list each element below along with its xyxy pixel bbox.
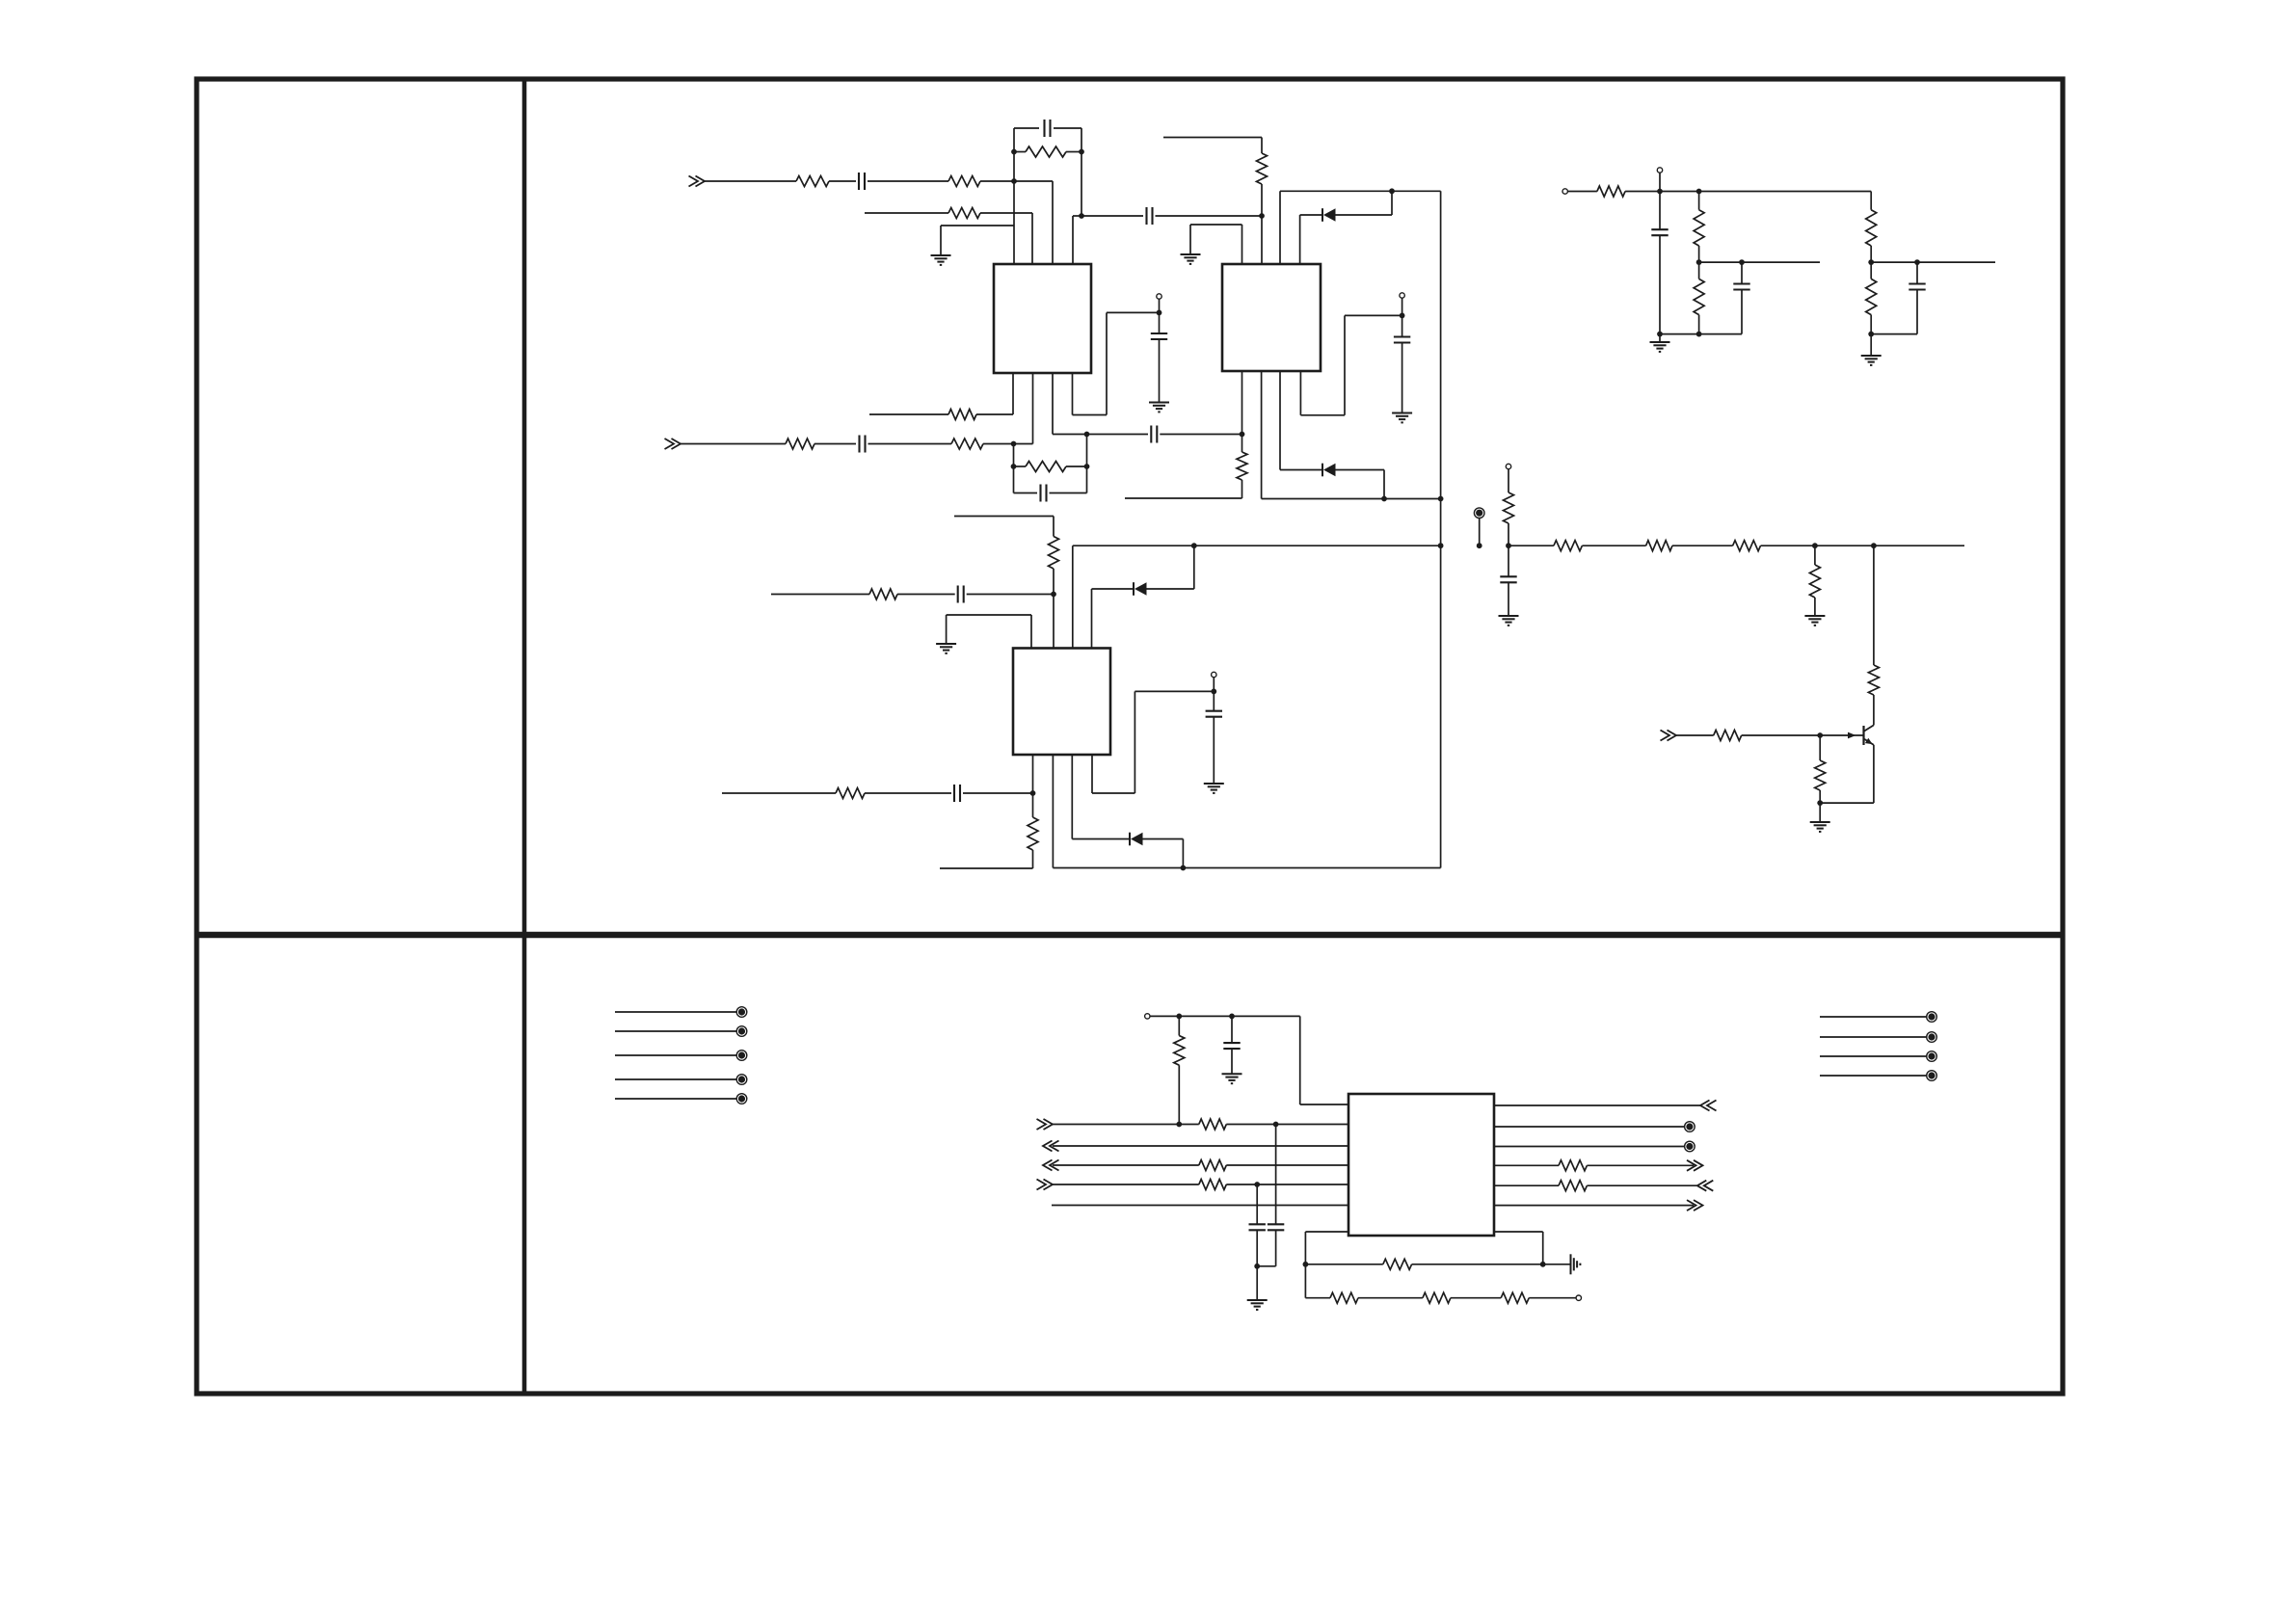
ground G8 [1804, 615, 1825, 617]
output connector chevron R5 [1697, 1181, 1707, 1191]
wire row6 b [865, 792, 951, 794]
wire R15 lead bottom [1508, 523, 1509, 545]
resistor R9 [1026, 462, 1066, 472]
wire U3 pinC2 drop [1052, 755, 1054, 868]
node B1 res [1176, 1122, 1182, 1128]
wire big loop bottom [1053, 867, 1440, 869]
terminal T1 target [1474, 508, 1484, 519]
wire U4 botright a [1494, 1231, 1543, 1233]
wire ur mid stub [1699, 261, 1820, 263]
capacitor C16 [1223, 1042, 1240, 1044]
wire ur bottom a [1660, 333, 1742, 335]
wire R26 lead bottom [1870, 246, 1872, 262]
IC U3 [1013, 649, 1110, 756]
wire y901 stub [940, 867, 1033, 869]
node y566 x1565 [1506, 543, 1511, 548]
wire U1 pinB drop [1032, 373, 1034, 444]
resistor R10 [1237, 452, 1247, 480]
input connector chevron B4 [1044, 1180, 1054, 1190]
wire left pad 3 [615, 1054, 736, 1056]
diode D1 [1322, 208, 1323, 222]
resistor R7 [786, 439, 814, 449]
wire U2 pinB2 drop [1261, 371, 1263, 499]
resistor R34 [1383, 1259, 1412, 1269]
terminal vcc5 circle [1145, 1014, 1150, 1019]
wire C7 lead bottom [1159, 339, 1161, 403]
wire U2 pin1 drop [1241, 225, 1243, 264]
wire ur right drop [1870, 192, 1872, 210]
frame horizontal panel divider [197, 932, 2063, 938]
wire row1 b [829, 180, 856, 182]
ground G13 [1247, 1299, 1268, 1301]
wire ur b [1625, 191, 1660, 193]
resistor R33 [1559, 1181, 1587, 1191]
wire U4 botleft drop [1304, 1232, 1306, 1264]
wire U2 pinB1 drop [1241, 371, 1243, 435]
wire row4 c [868, 443, 952, 445]
wire bvcc drop [1299, 1016, 1301, 1104]
wire y566 b [1508, 545, 1554, 546]
wire C16 lead bottom [1231, 1049, 1233, 1074]
wire y517 left stub [1125, 497, 1242, 499]
capacitor C14 [1733, 282, 1749, 284]
resistor R8 [951, 439, 983, 449]
node loop2 res left [1011, 464, 1017, 469]
wire row1 d [980, 180, 1014, 182]
wire y450 a [1053, 434, 1087, 436]
IC U2 [1222, 264, 1321, 371]
wire D3 left drop [1091, 589, 1093, 649]
wire row1 a [705, 180, 796, 182]
wire T1 stem [1479, 519, 1481, 546]
wire vcc2 b [1345, 314, 1402, 316]
wire row6 c [963, 792, 1033, 794]
wire C13 lead top [1659, 192, 1661, 230]
terminal R2 target [1685, 1122, 1695, 1132]
node row6 junction [1030, 790, 1036, 796]
resistor R3 [1026, 146, 1066, 157]
wire stub y535 [954, 516, 1054, 518]
wire vcc3 b [1135, 690, 1214, 692]
wire D4 lead a [1072, 838, 1130, 840]
node loop1 res right [1079, 149, 1084, 155]
wire y566 left drop [1072, 545, 1074, 648]
wire left pad 2 [615, 1030, 736, 1032]
node B1 cap [1273, 1122, 1279, 1128]
wire D3 rise [1193, 545, 1195, 589]
wire B3 b [1226, 1164, 1348, 1166]
wire C8 lead top [1402, 315, 1403, 336]
wire R25 lead bottom [1698, 315, 1700, 334]
terminal P2 circle [1576, 1295, 1581, 1300]
wire R27 lead top [1870, 262, 1872, 279]
wire R3out [1494, 1146, 1685, 1148]
wire right pad 3 [1820, 1055, 1927, 1057]
terminal TP1 circle [1506, 464, 1510, 468]
wire Q1 collector riser [1873, 545, 1875, 665]
node ur3 [1696, 259, 1702, 265]
resistor R11 [1049, 537, 1059, 570]
wire U2 pinB3 drop [1279, 371, 1281, 470]
node bvcc2 [1229, 1014, 1235, 1020]
output connector chevron B2 [1043, 1141, 1053, 1152]
wire U3 pinC1 drop [1032, 755, 1034, 793]
transistor Q1 [1862, 726, 1864, 745]
wire y450 drop [1086, 435, 1088, 467]
wire R28 lead bottom [1178, 1065, 1180, 1124]
wire R25 lead top [1698, 262, 1700, 279]
wire y224 a [1081, 215, 1143, 217]
wire C7 lead top [1159, 312, 1161, 333]
wire y566 c [1582, 545, 1645, 546]
node big loop D4 [1181, 865, 1187, 871]
terminal right pad 4 [1927, 1071, 1937, 1081]
wire vcc1 a [1073, 414, 1108, 416]
node P1 right [1540, 1262, 1546, 1267]
resistor R1 [796, 176, 829, 187]
node y224 right [1259, 213, 1265, 219]
resistor R4 [948, 208, 980, 219]
wire R24 lead top [1698, 192, 1700, 210]
resistor R28 [1174, 1036, 1185, 1066]
wire loop1 right vertical [1081, 128, 1082, 216]
wire U1 pin1 drop [1013, 181, 1015, 264]
node loop2 res right [1084, 464, 1090, 469]
resistor R12 [869, 589, 897, 599]
wire R6out [1494, 1205, 1694, 1207]
wire TP1 stem [1508, 469, 1509, 492]
wire R5 lead bottom [1261, 184, 1263, 216]
ground G3 [1149, 402, 1169, 404]
node ur5 [1696, 332, 1702, 337]
wire C18 lead top [1275, 1125, 1277, 1225]
wire bvcc b [1300, 1104, 1348, 1105]
wire C15 lead bottom [1916, 290, 1918, 334]
wire row6 stub [722, 792, 836, 794]
wire D2 lead b [1336, 469, 1385, 471]
wire base a [1676, 734, 1714, 736]
input connector chevron J1 [696, 176, 706, 187]
wire P1 gnd lead [1543, 1264, 1570, 1265]
node right vert y566 [1438, 543, 1444, 548]
node ur4 [1739, 259, 1745, 265]
node row1 junction [1011, 178, 1017, 184]
wire base c [1820, 734, 1863, 736]
wire R14 lead top [1032, 793, 1034, 817]
resistor R36 [1423, 1292, 1451, 1303]
wire R4out b [1587, 1164, 1694, 1166]
wire left pad 4 [615, 1078, 736, 1080]
resistor R31 [1199, 1180, 1227, 1190]
wire U2 pinB4 drop [1299, 371, 1301, 415]
wire loop1 left vertical [1013, 128, 1015, 181]
wire loop1 top b [1054, 127, 1081, 129]
node B4 cap [1254, 1182, 1260, 1187]
wire ur c [1660, 191, 1699, 193]
ground G7 [1499, 615, 1519, 617]
wire D1 lead b [1336, 214, 1393, 216]
wire P2 a [1305, 1297, 1330, 1299]
capacitor C3 [1145, 207, 1147, 225]
wire C16 lead top [1231, 1016, 1233, 1043]
wire right pad 2 [1820, 1036, 1927, 1038]
resistor R30 [1199, 1160, 1227, 1171]
diode D3 [1133, 582, 1135, 596]
capacitor C6 [1150, 426, 1152, 443]
output connector chevron R4 [1694, 1160, 1703, 1171]
wire R10 lead top [1241, 435, 1243, 453]
capacitor C1 [858, 173, 860, 190]
wire vcc2 rise [1344, 315, 1346, 414]
wire D3 lead a [1092, 588, 1135, 590]
node vcc3 [1211, 689, 1216, 695]
node y566 T1 [1477, 543, 1482, 548]
wire C14 lead top [1741, 262, 1743, 283]
wire D3 lead b [1147, 588, 1194, 590]
wire vcc1 rise [1106, 312, 1108, 414]
wire R19 lead top [1814, 545, 1816, 565]
node row4 junction [1011, 441, 1017, 447]
wire loop1 top a [1014, 127, 1039, 129]
diode D4 [1129, 833, 1131, 846]
wire C18 lead bottom [1275, 1230, 1277, 1266]
ground G9 [1810, 821, 1830, 823]
resistor R6 [948, 410, 976, 420]
wire P2 b [1358, 1297, 1423, 1299]
wire loop1 res lead a [1014, 151, 1026, 153]
output connector chevron R1 [1700, 1101, 1710, 1111]
wire row5 b [897, 594, 955, 596]
ground G11 [1861, 355, 1882, 357]
wire D1 lead a [1300, 214, 1322, 216]
wire R4out a [1494, 1164, 1559, 1166]
node vcc2 [1400, 313, 1405, 319]
wire row4 e [1014, 443, 1033, 445]
node bvcc1 [1176, 1014, 1182, 1020]
node ur7 [1914, 259, 1920, 265]
resistor R23 [1597, 186, 1625, 197]
node ur8 [1868, 332, 1874, 337]
capacitor C17 [1249, 1223, 1266, 1225]
wire y450 b [1087, 434, 1149, 436]
wire y517 right [1262, 498, 1441, 500]
terminal left pad 1 [736, 1007, 747, 1018]
capacitor C11 [1206, 710, 1222, 712]
wire B3 a [1053, 1164, 1199, 1166]
node ur2 [1696, 189, 1702, 195]
wire Q1 emitter drop [1873, 745, 1875, 803]
wire left pad 5 [615, 1098, 736, 1100]
resistor R20 [1868, 665, 1879, 695]
wire U1 pin3 drop [1052, 181, 1054, 264]
wire P1 a [1305, 1264, 1382, 1265]
wire gnd stub G5 [946, 615, 948, 644]
wire y566 row a [1073, 545, 1441, 546]
wire C17 lead top [1256, 1184, 1258, 1224]
wire loop2 left upper [1013, 444, 1015, 467]
wire U1 pinC drop [1052, 373, 1054, 435]
wire R19 lead bottom [1814, 598, 1816, 616]
wire bvcc a [1150, 1015, 1300, 1017]
wire R27 lead bottom [1870, 315, 1872, 334]
wire loop2 bottom b [1050, 492, 1087, 494]
node P1 left [1303, 1262, 1309, 1267]
wire B4 b [1226, 1184, 1348, 1185]
capacitor C2 [1043, 120, 1045, 137]
wire R2out [1494, 1126, 1685, 1128]
terminal right pad 1 [1927, 1012, 1937, 1023]
wire R1out [1494, 1104, 1700, 1106]
ground G1 [931, 254, 951, 256]
resistor R37 [1501, 1292, 1529, 1303]
resistor R29 [1199, 1119, 1227, 1130]
resistor R16 [1554, 541, 1583, 551]
wire vcc3 stem [1213, 678, 1215, 692]
wire R5 lead top [1261, 138, 1263, 154]
wire U2 pin3 rise [1279, 191, 1281, 264]
wire C17 lead bottom [1256, 1230, 1258, 1266]
wire loop1 res lead b [1066, 151, 1081, 153]
wire right long vertical upper [1440, 191, 1442, 498]
wire row4 b [814, 443, 856, 445]
terminal left pad 2 [736, 1026, 747, 1037]
ground G4 [1392, 412, 1412, 414]
terminal J4 circle [1562, 189, 1567, 194]
wire vcc4 stem [1659, 173, 1661, 191]
wire U3 pin2 drop [1053, 595, 1055, 649]
wire R24 lead bottom [1698, 246, 1700, 262]
wire P2 drop [1304, 1264, 1306, 1298]
wire R21 lead bottom [1819, 790, 1821, 803]
resistor R22 [1714, 731, 1742, 741]
node y450 mid [1084, 432, 1090, 438]
wire right pad 1 [1820, 1016, 1927, 1018]
wire stub y142 [1163, 137, 1262, 139]
node y566 x1944 [1871, 543, 1877, 548]
input connector chevron J3 [1668, 731, 1677, 741]
capacitor C9 [957, 586, 959, 603]
terminal vcc3 circle [1212, 672, 1216, 677]
wire C12 lead bottom [1508, 582, 1509, 616]
ground G10 [1650, 341, 1670, 343]
wire D4 drop [1182, 839, 1184, 868]
wire row1 c [868, 180, 948, 182]
wire R5out b [1587, 1184, 1696, 1186]
IC U1 [994, 264, 1091, 373]
wire vcc3 a [1092, 792, 1135, 794]
ground G2 [1181, 253, 1201, 255]
IC U4 [1348, 1094, 1494, 1236]
wire right long vertical lower [1440, 545, 1442, 867]
wire gnd stub G13 [1256, 1266, 1258, 1300]
wire C14 lead bottom [1741, 290, 1743, 334]
wire row2 stub [865, 212, 948, 214]
wire gnd stub G1 [940, 226, 942, 255]
wire row3 b [976, 413, 1013, 415]
wire U1 pin4 jog [1073, 215, 1081, 217]
wire vcc1 stem [1159, 299, 1161, 312]
ground G5 [936, 643, 956, 645]
wire ur a [1567, 191, 1597, 193]
node y566 x1883 [1812, 543, 1818, 548]
wire U4 botleft a [1305, 1231, 1348, 1233]
wire loop2 right [1086, 466, 1088, 493]
node base junction [1817, 732, 1823, 738]
wire U2 gnd horizontal [1190, 224, 1242, 226]
resistor R18 [1733, 541, 1761, 551]
wire row5 c [967, 594, 1054, 596]
wire P2 d [1529, 1297, 1576, 1299]
capacitor C10 [953, 785, 955, 802]
wire B5 [1052, 1205, 1348, 1207]
resistor R32 [1559, 1160, 1587, 1171]
wire Q1 collector lead [1873, 695, 1875, 725]
wire U3 pinC4 drop [1091, 755, 1093, 793]
wire D2 drop [1383, 470, 1385, 499]
output connector chevron B3 [1043, 1160, 1053, 1171]
node D1 top [1389, 188, 1395, 194]
wire gnd stub G10 [1659, 334, 1661, 342]
wire B1 a [1053, 1124, 1199, 1126]
terminal vcc2 circle [1400, 293, 1404, 298]
wire R5out a [1494, 1184, 1559, 1186]
wire caps join [1257, 1265, 1275, 1267]
wire row4 a [681, 443, 786, 445]
wire vcc2 a [1300, 414, 1345, 416]
wire row2 b [980, 212, 1032, 214]
resistor R19 [1809, 565, 1820, 598]
wire loop2 res lead a [1014, 466, 1027, 467]
node ur6 [1868, 259, 1874, 265]
wire top loop horizontal [1280, 190, 1441, 192]
terminal right pad 2 [1927, 1032, 1937, 1043]
node vcc1 [1157, 310, 1162, 316]
resistor R26 [1866, 210, 1877, 246]
wire base b [1742, 734, 1821, 736]
wire B2 [1053, 1145, 1348, 1147]
wire B1 b [1226, 1124, 1348, 1126]
wire loop2 left lower [1013, 466, 1015, 493]
node emitter [1817, 800, 1823, 806]
wire y224 b [1156, 215, 1263, 217]
ground G12 [1222, 1073, 1242, 1075]
wire U2 pin2 drop [1261, 216, 1263, 264]
resistor R15 [1504, 492, 1514, 523]
border frame outer [197, 79, 2063, 1394]
node ur1 [1657, 189, 1663, 195]
wire loop2 bottom a [1014, 492, 1038, 494]
wire y566 d [1672, 545, 1733, 546]
input connector chevron B1 [1044, 1119, 1054, 1130]
wire emitter horizontal [1820, 802, 1874, 804]
wire right pad 4 [1820, 1075, 1927, 1077]
input connector chevron J2 [672, 439, 681, 449]
node y450 right [1240, 432, 1245, 438]
resistor R25 [1694, 279, 1704, 314]
wire left pad 1 [615, 1011, 736, 1013]
wire vcc3 rise [1134, 691, 1135, 793]
wire gnd stub G2 [1189, 225, 1191, 254]
wire y566 e [1761, 545, 1965, 546]
frame title column divider [522, 79, 527, 1394]
node y224 left [1079, 213, 1084, 219]
wire y450 c [1160, 434, 1241, 436]
capacitor C7 [1151, 333, 1167, 334]
resistor R17 [1646, 541, 1672, 551]
terminal left pad 3 [736, 1051, 747, 1061]
capacitor C4 [858, 436, 860, 453]
terminal vcc4 circle [1657, 168, 1662, 173]
